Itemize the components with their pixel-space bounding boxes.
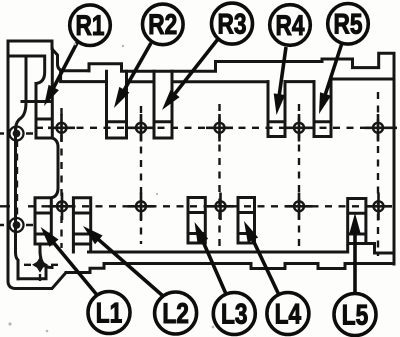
tab R4 [268,82,285,137]
inner line left top [8,56,45,84]
callout circle R2 [143,4,184,45]
inner vertical left column [16,56,26,128]
foot lower flange to mid [66,264,394,273]
svg-text:R3: R3 [218,8,247,40]
arrow R3 [162,39,218,110]
filled bolt marker left lower [10,218,24,232]
left end right edge steps to deck [52,41,89,71]
cross marker lower 5 [365,193,392,221]
arrows [41,39,361,296]
callout circle L3 [213,293,255,335]
svg-text:L2: L2 [162,298,189,330]
cross marker lower 4 [286,193,313,221]
callout circle R1 [70,5,111,46]
deck line upper flange [61,71,394,82]
top edge profile mid [89,53,394,264]
svg-text:R4: R4 [276,10,305,42]
arrow L2 [83,226,163,296]
filled bolt marker left upper [10,127,24,141]
tab R1 [22,49,52,138]
left end outer outline [8,41,90,289]
svg-text:R1: R1 [76,10,105,42]
callout circle R3 [212,3,253,44]
dashed marker rows left [0,132,33,134]
lower flange A [89,244,395,254]
cross marker lower 3 [207,193,234,221]
tab R5 [314,82,331,137]
callout circle L5 [334,294,376,336]
cross marker upper 2 [128,114,155,142]
arrow L5 [349,213,361,293]
callout circle R4 [270,5,311,46]
arrow L4 [244,221,279,295]
svg-text:R5: R5 [334,9,363,41]
callout circle L4 [267,293,309,335]
svg-text:L3: L3 [221,298,248,330]
foot inner fillet [40,244,52,268]
tab R3 [154,71,172,138]
filled marker foot [32,257,48,273]
svg-text:L4: L4 [275,298,302,330]
svg-text:L1: L1 [96,297,123,329]
arrow R4 [274,47,286,115]
cross marker upper 4 [286,114,313,142]
arrow L1 [41,227,97,295]
callout circle R5 [328,4,369,45]
cross marker upper 5 [365,114,398,142]
dashed centerlines horizontal upper row [0,92,398,284]
circled cross markers [48,114,397,220]
cross marker lower 1 [49,193,76,221]
tab L5 [348,199,366,253]
tab L4 [238,198,255,244]
dashed vertical centerlines [60,108,62,248]
callout circle L1 [88,292,130,334]
inner vertical left lower [16,128,19,279]
svg-text:R2: R2 [148,9,177,41]
arrow R1 [44,41,78,106]
tab L1 [35,198,51,244]
tab L3 [188,198,205,244]
dashed centerline horizontal lower row [0,205,10,207]
cross marker upper 1 [48,114,75,142]
tab R2 [107,71,127,138]
scan specks [8,43,214,333]
arrow R5 [319,43,342,114]
tab R1 bottom to L deck curve [51,138,58,198]
tab L2 [73,198,90,252]
foot inner bottom [18,269,46,279]
svg-text:L5: L5 [342,299,369,331]
cross marker lower 2 [128,193,155,221]
cross marker upper 3 [206,114,233,142]
arrow L3 [195,222,227,294]
callout circle L2 [155,292,197,334]
arrow R2 [114,43,151,108]
